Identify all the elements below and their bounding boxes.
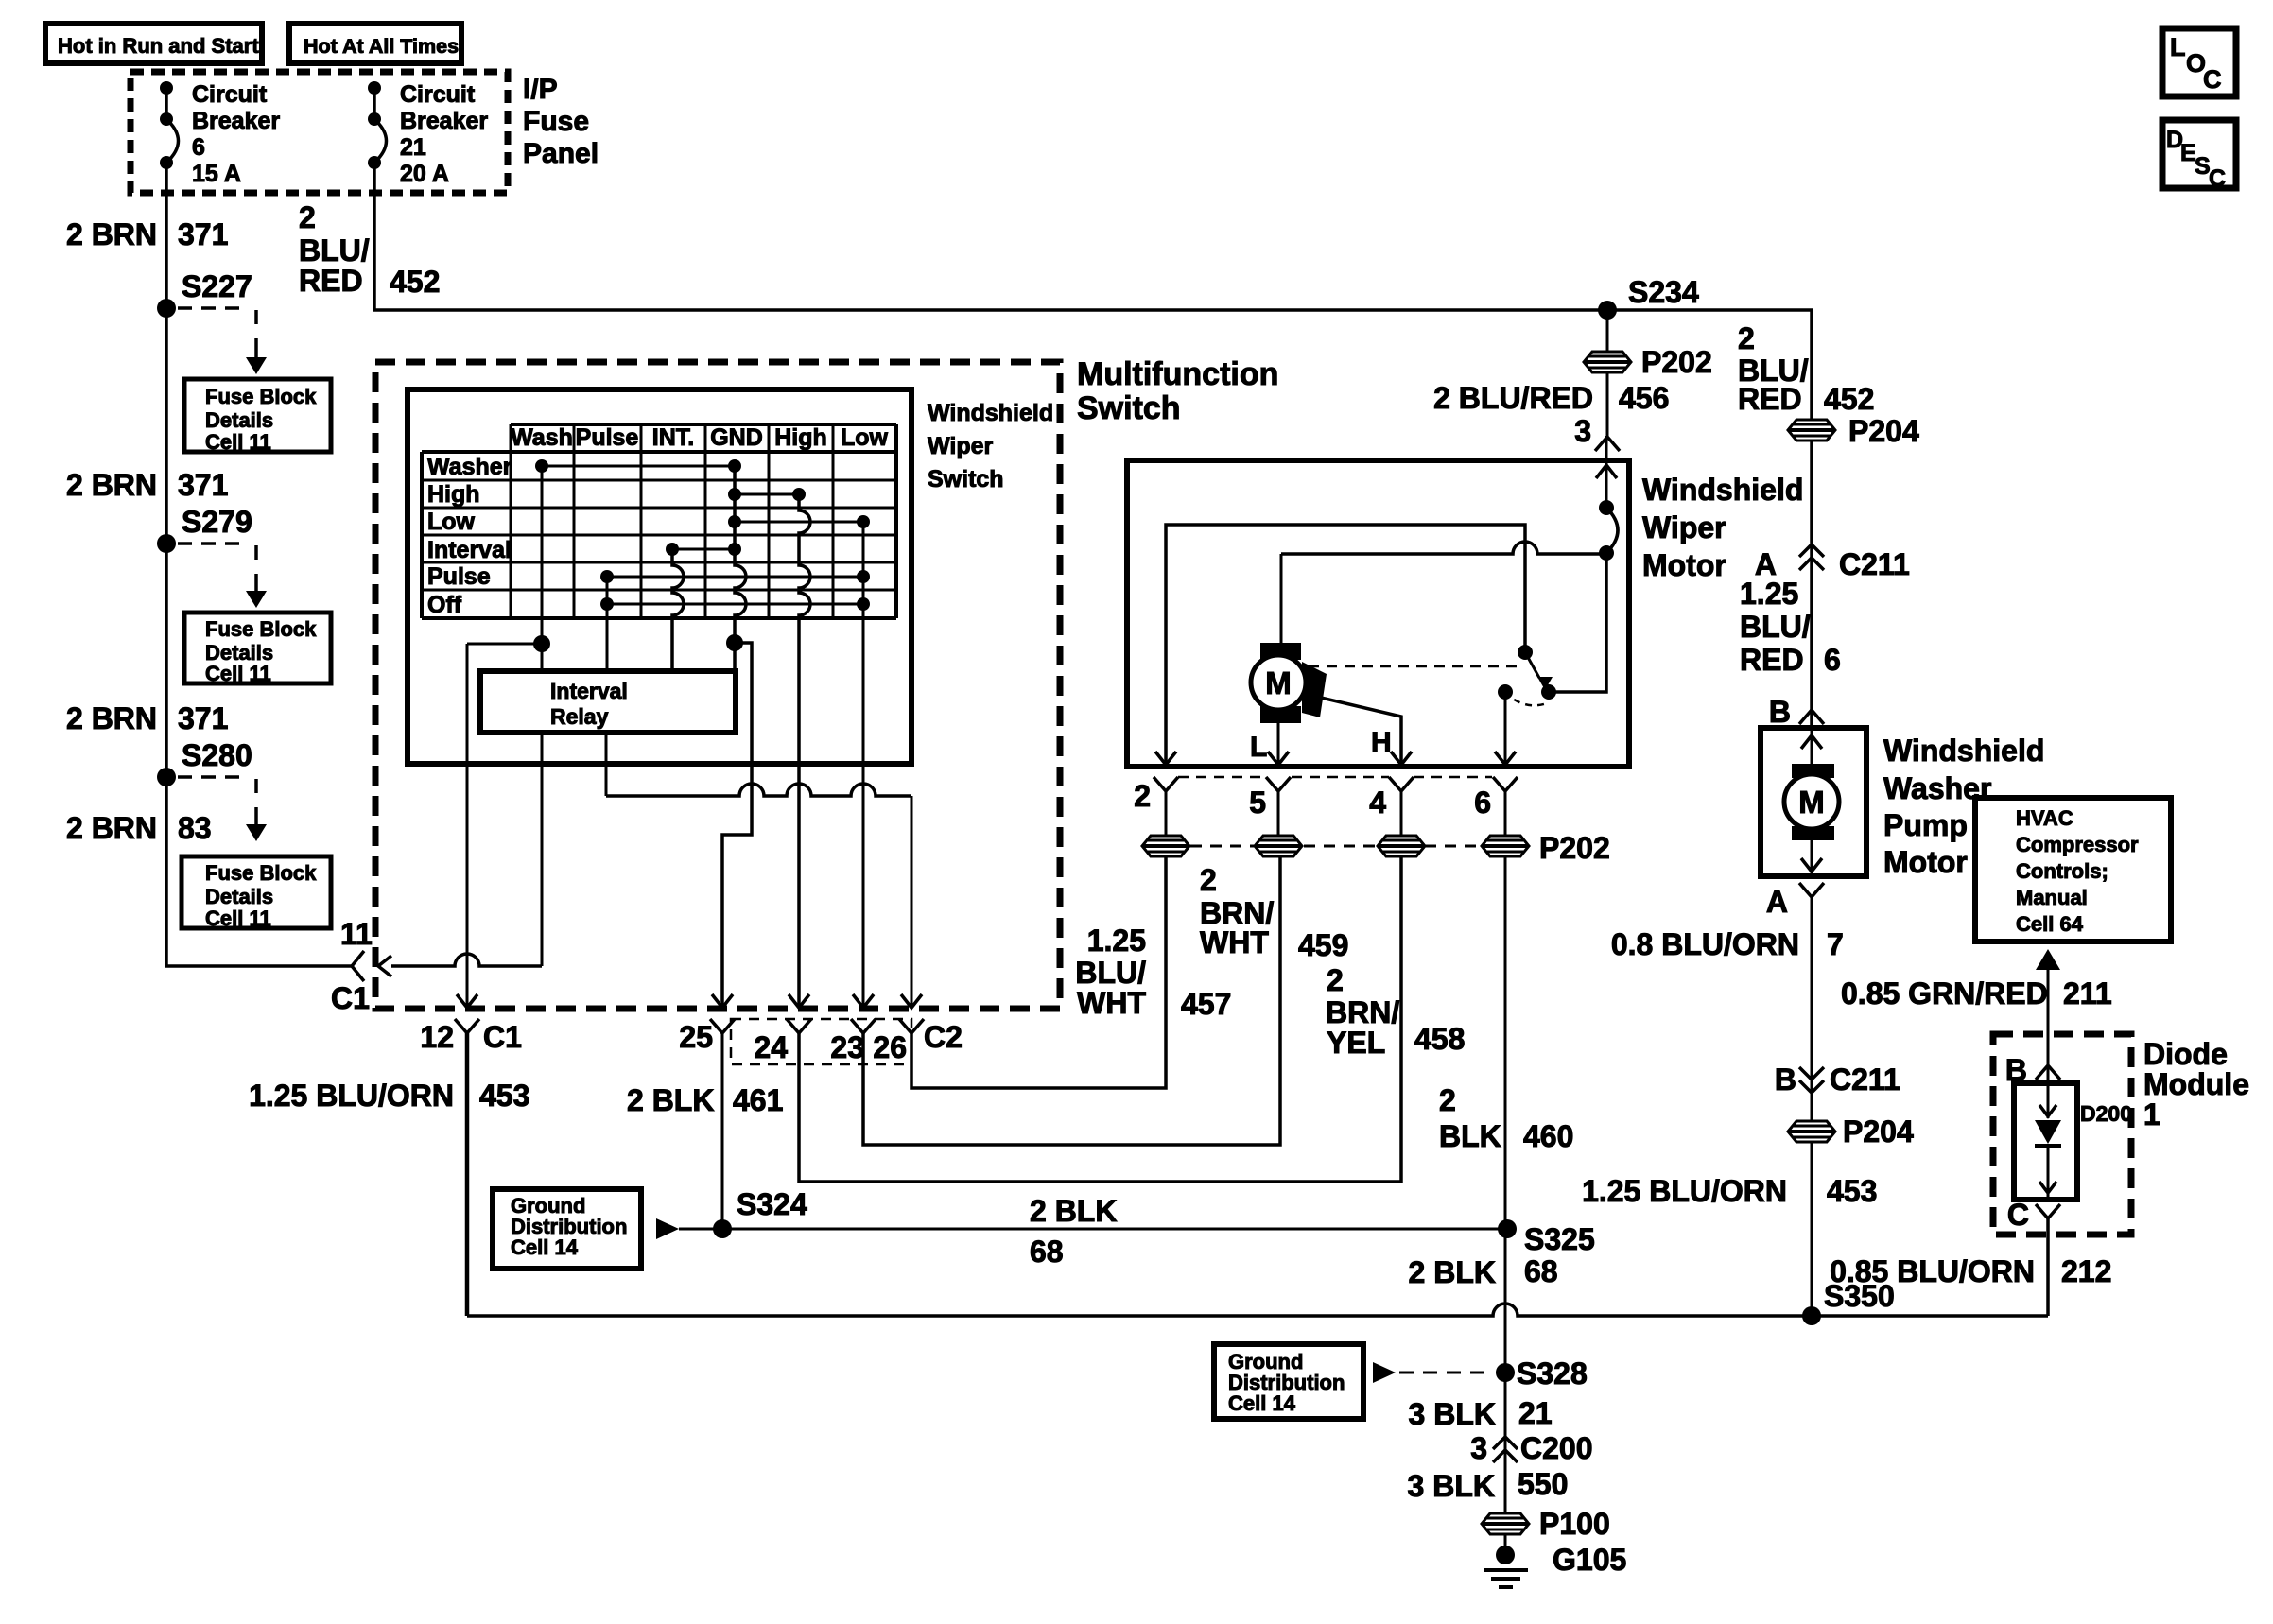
svg-text:Cell 11: Cell 11 — [205, 907, 271, 930]
C1 pin 11 connector (female) — [331, 917, 373, 1015]
diode symbol — [2035, 1083, 2061, 1200]
svg-text:Windshield: Windshield — [1883, 734, 2044, 768]
CB6 text — [192, 81, 280, 187]
P202 grommet on wire 456 — [1584, 345, 1712, 379]
wire 211: diode B up to HVAC box — [2036, 949, 2060, 1083]
svg-text:Details: Details — [205, 408, 273, 432]
svg-text:2 BRN: 2 BRN — [66, 468, 157, 502]
label 2 BLK 68 (middle) — [1030, 1194, 1117, 1269]
svg-text:M: M — [1265, 665, 1292, 700]
arrow from ground distribution box to S324 — [656, 1218, 679, 1239]
svg-text:3: 3 — [1470, 1431, 1487, 1465]
Ground Distribution box (right) — [1214, 1344, 1363, 1419]
label 2 BLK 461 — [627, 1083, 783, 1117]
svg-text:460: 460 — [1523, 1119, 1573, 1153]
svg-text:21: 21 — [400, 134, 426, 161]
P204 grommet on wire 452 — [1788, 414, 1919, 448]
svg-text:G105: G105 — [1553, 1543, 1626, 1577]
svg-text:C200: C200 — [1520, 1431, 1593, 1465]
contact trace: Washer row — [535, 459, 741, 473]
svg-text:Circuit: Circuit — [400, 81, 476, 108]
wire 461: C2-25 down to S324 — [721, 1033, 724, 1229]
svg-text:6: 6 — [1824, 643, 1841, 677]
arrow and dashed link to S328 — [1373, 1362, 1492, 1383]
svg-text:Pulse: Pulse — [427, 563, 491, 590]
svg-text:Circuit: Circuit — [192, 81, 268, 108]
svg-text:L: L — [1250, 732, 1267, 763]
svg-text:WHT: WHT — [1200, 925, 1269, 959]
svg-text:S280: S280 — [182, 738, 252, 772]
Diode Module label — [2143, 1037, 2249, 1132]
svg-text:Cell 64: Cell 64 — [2016, 912, 2084, 936]
wire 7: washer pump A down to S350 — [1811, 897, 1813, 1316]
Fuse Block Details box 1 — [184, 379, 331, 454]
svg-text:2 BLK: 2 BLK — [627, 1083, 714, 1117]
wire 212: diode C down to S350 — [2046, 1218, 2050, 1316]
wire 457: C2-26 to wiper motor pin 2 — [911, 857, 1166, 1088]
svg-text:RED: RED — [299, 264, 363, 298]
svg-text:C: C — [2007, 1198, 2029, 1232]
High column wire to pin 24 — [789, 494, 810, 1008]
svg-text:BLK: BLK — [1439, 1119, 1501, 1153]
mechanical link dashed line from rotor to park switch — [1309, 665, 1518, 668]
svg-text:Breaker: Breaker — [400, 108, 488, 134]
diode D200 box — [2014, 1083, 2077, 1200]
wire label 2 BRN 371 (first) — [66, 217, 228, 251]
svg-text:C: C — [2203, 65, 2222, 94]
diode pin C connector — [2007, 1198, 2060, 1232]
contact trace: Interval row — [666, 543, 741, 556]
svg-text:C2: C2 — [924, 1020, 963, 1054]
svg-text:Switch: Switch — [1077, 390, 1181, 426]
svg-text:Windshield: Windshield — [928, 400, 1053, 426]
svg-text:211: 211 — [2063, 976, 2112, 1011]
svg-text:83: 83 — [178, 811, 212, 845]
label 1.25 BLU/ORN 453 — [249, 1079, 529, 1113]
svg-text:1.25 BLU/ORN: 1.25 BLU/ORN — [249, 1079, 454, 1113]
svg-text:High: High — [427, 481, 480, 508]
svg-text:23: 23 — [830, 1030, 864, 1064]
wire 456: S234 down to motor pin 3 — [1606, 310, 1609, 436]
P100 grommet — [1482, 1507, 1610, 1541]
switch contact table grid — [422, 424, 896, 618]
power label box: Hot in Run and Start — [45, 24, 262, 63]
svg-text:2 BRN: 2 BRN — [66, 217, 157, 251]
svg-text:5: 5 — [1249, 786, 1266, 820]
L and H labels — [1250, 727, 1392, 763]
svg-text:Fuse Block: Fuse Block — [205, 617, 317, 641]
wire 453/212 bottom run: C1-12 corner to diode C with hop at ground wire — [467, 1304, 2048, 1316]
table header labels — [511, 424, 888, 451]
svg-text:461: 461 — [733, 1083, 783, 1117]
svg-text:2: 2 — [1439, 1083, 1456, 1117]
svg-text:Diode: Diode — [2143, 1037, 2228, 1071]
label 0.85 BLU/ORN 212 — [1830, 1254, 2111, 1288]
svg-text:P202: P202 — [1641, 345, 1712, 379]
svg-text:2 BLK: 2 BLK — [1030, 1194, 1117, 1228]
contact trace: Off row — [600, 597, 870, 611]
svg-text:457: 457 — [1181, 987, 1231, 1021]
svg-text:S328: S328 — [1517, 1356, 1588, 1391]
wire label 2 BLU/RED 452 (left) — [299, 200, 440, 299]
svg-text:Cell 14: Cell 14 — [1228, 1391, 1296, 1415]
svg-text:Wiper: Wiper — [1642, 510, 1726, 544]
svg-text:Fuse: Fuse — [523, 106, 589, 137]
Multifunction Switch label — [1077, 356, 1278, 426]
svg-text:20 A: 20 A — [400, 161, 449, 187]
I/P Fuse Panel dashed box — [130, 72, 508, 193]
P202 pass-through grommets row — [1142, 831, 1610, 865]
svg-text:6: 6 — [1474, 786, 1491, 820]
HVAC Compressor Controls box — [1975, 798, 2171, 942]
svg-text:Hot in Run and Start: Hot in Run and Start — [58, 34, 259, 58]
svg-text:Off: Off — [427, 592, 462, 618]
svg-text:Relay: Relay — [550, 704, 609, 729]
svg-text:2 BRN: 2 BRN — [66, 811, 157, 845]
svg-text:371: 371 — [178, 217, 228, 251]
label 3 BLK 21 — [1409, 1396, 1553, 1431]
C1 pin 12 connector — [420, 1019, 522, 1054]
C2 connector pins 25/24/23/26 — [679, 1019, 963, 1064]
svg-text:B: B — [1775, 1063, 1796, 1097]
svg-text:Washer: Washer — [427, 454, 512, 480]
wire label 2 BRN 371 (third) — [66, 701, 228, 735]
Wash column wire down to relay and branch to C1 pin 12 — [457, 466, 550, 1008]
svg-text:High: High — [774, 424, 827, 451]
svg-text:Wash: Wash — [511, 424, 573, 451]
svg-text:Controls;: Controls; — [2016, 859, 2108, 883]
svg-text:S350: S350 — [1824, 1279, 1895, 1313]
svg-text:Hot At All Times: Hot At All Times — [304, 35, 459, 58]
svg-text:Windshield: Windshield — [1642, 473, 1803, 507]
svg-text:BLU/: BLU/ — [1075, 956, 1146, 990]
wire 458(high): C2-24 to wiper motor pin 4 — [799, 857, 1401, 1182]
svg-text:21: 21 — [1518, 1396, 1553, 1430]
wire 460: motor pin 6 to S325 — [1504, 857, 1507, 1229]
svg-text:S325: S325 — [1524, 1222, 1595, 1256]
Fuse Block Details box 2 — [184, 613, 331, 685]
svg-text:371: 371 — [178, 701, 228, 735]
svg-text:Motor: Motor — [1883, 845, 1968, 879]
svg-text:Motor: Motor — [1642, 548, 1726, 582]
CB21 text — [400, 81, 488, 187]
svg-text:C: C — [2209, 165, 2226, 192]
svg-text:Cell 11: Cell 11 — [205, 430, 271, 454]
wire 459(low): C2-23 to wiper motor pin 5 — [863, 857, 1280, 1145]
splice S328 — [1496, 1356, 1588, 1391]
svg-text:L: L — [2170, 33, 2186, 61]
svg-text:15 A: 15 A — [192, 161, 241, 187]
svg-text:Module: Module — [2143, 1067, 2249, 1101]
splice S234 — [1598, 275, 1699, 320]
svg-text:4: 4 — [1369, 786, 1386, 820]
svg-text:Fuse Block: Fuse Block — [205, 385, 317, 408]
motor M symbol — [1251, 643, 1327, 723]
svg-text:INT.: INT. — [652, 424, 694, 451]
svg-text:M: M — [1798, 785, 1825, 820]
wire 453: C1-12 down to S350 line — [465, 1033, 470, 1316]
svg-text:Manual: Manual — [2016, 886, 2088, 909]
svg-text:A: A — [1766, 885, 1788, 919]
circuit breaker CB21 (20 A) — [368, 81, 387, 169]
svg-text:D200: D200 — [2080, 1101, 2132, 1126]
svg-text:2 BLU/RED: 2 BLU/RED — [1433, 381, 1593, 415]
Fuse Block Details box 3 — [182, 856, 331, 930]
label 0.8 BLU/ORN 7 — [1611, 927, 1844, 961]
park switch inner loop: pin 2 up and over to pivot — [1166, 525, 1525, 765]
contact trace: High row — [728, 488, 806, 501]
svg-text:HVAC: HVAC — [2016, 806, 2073, 830]
wire labels below motor — [1075, 924, 1231, 1021]
svg-text:25: 25 — [679, 1020, 713, 1054]
svg-text:B: B — [1769, 695, 1791, 729]
label 1.25 BLU/ORN 453 (right) — [1582, 1174, 1877, 1208]
svg-text:Pump: Pump — [1883, 808, 1968, 842]
park switch pivot, arm and throws — [1498, 645, 1556, 765]
svg-text:Details: Details — [205, 885, 273, 908]
svg-text:2: 2 — [1327, 963, 1344, 997]
P204 grommet (lower) — [1788, 1114, 1914, 1149]
svg-text:P100: P100 — [1539, 1507, 1610, 1541]
svg-text:BRN/: BRN/ — [1326, 995, 1399, 1029]
svg-text:Interval: Interval — [550, 679, 628, 703]
label 3 BLK 550 — [1408, 1467, 1569, 1503]
GND column wire to relay and branch to pin 25 — [712, 466, 752, 1008]
DESC reference box — [2162, 120, 2236, 192]
svg-text:11: 11 — [340, 917, 373, 951]
svg-text:2 BRN: 2 BRN — [66, 701, 157, 735]
svg-text:B: B — [2005, 1053, 2027, 1087]
svg-text:Multifunction: Multifunction — [1077, 356, 1278, 392]
Windshield Wiper Switch label — [928, 400, 1053, 492]
Windshield Wiper Motor box — [1127, 460, 1629, 767]
svg-text:0.85 GRN/RED: 0.85 GRN/RED — [1841, 976, 2048, 1011]
svg-text:P204: P204 — [1848, 414, 1919, 448]
svg-text:68: 68 — [1030, 1235, 1064, 1269]
svg-text:3: 3 — [1574, 414, 1591, 448]
motor connector pins 2/5/4/6 — [1134, 777, 1518, 836]
relay output wire to pin 26 (with hops) — [606, 733, 922, 1008]
Ground Distribution box (left) — [493, 1189, 641, 1269]
svg-text:RED: RED — [1740, 643, 1804, 677]
motor common wire from contact down to park switch throw — [1549, 553, 1606, 692]
contact trace: Low row — [728, 515, 870, 528]
svg-text:Panel: Panel — [523, 138, 599, 169]
svg-text:C1: C1 — [483, 1020, 522, 1054]
label 1.25 BLU/RED 6 — [1740, 577, 1841, 677]
svg-text:24: 24 — [754, 1030, 788, 1064]
svg-text:S227: S227 — [182, 269, 252, 303]
svg-text:2: 2 — [1738, 321, 1755, 355]
washer pump pin A connector — [1766, 883, 1824, 919]
S325 label — [1524, 1222, 1595, 1256]
Low column wire to pin 23 — [853, 522, 874, 1008]
diode pin B connector — [2005, 1053, 2060, 1087]
connector C200 pin 3 — [1470, 1431, 1592, 1465]
svg-text:7: 7 — [1827, 927, 1844, 961]
svg-text:2 BLK: 2 BLK — [1409, 1255, 1496, 1289]
svg-text:371: 371 — [178, 468, 228, 502]
svg-text:Cell 14: Cell 14 — [511, 1235, 579, 1259]
ground wire S325 to S328 to G105 — [1504, 1229, 1507, 1553]
contact trace: Pulse row — [600, 570, 870, 583]
circuit breaker CB6 (15 A) — [160, 81, 179, 169]
S227 dashed link to fuse block details — [178, 308, 267, 374]
svg-text:68: 68 — [1524, 1254, 1558, 1288]
LOC reference box — [2162, 28, 2236, 96]
label 0.85 GRN/RED 211 — [1841, 976, 2112, 1011]
arrows at motor box bottom edge — [1155, 752, 1516, 765]
wire 371: CB6 down the left side to C1 pin 11 — [166, 163, 352, 966]
svg-text:Wiper: Wiper — [928, 433, 993, 459]
relay feed wire to C1 pin 11 (with hop) — [378, 733, 542, 976]
table row labels — [427, 454, 512, 618]
svg-text:Low: Low — [427, 509, 476, 535]
svg-text:YEL: YEL — [1327, 1026, 1385, 1060]
svg-text:456: 456 — [1619, 381, 1669, 415]
svg-text:S324: S324 — [737, 1187, 807, 1221]
svg-text:Compressor: Compressor — [2016, 833, 2139, 856]
Windshield Wiper Switch solid box — [408, 389, 911, 764]
splice S324 and ground wire 68 to S325 — [679, 1187, 1517, 1238]
wire from motor top to contact (hop over park wire) — [1281, 542, 1606, 643]
connector C211 pin A — [1755, 544, 1910, 581]
svg-text:C211: C211 — [1830, 1063, 1900, 1097]
svg-text:C211: C211 — [1839, 547, 1910, 581]
Windshield Washer Pump Motor box — [1761, 728, 1866, 876]
washer pump pin B connector — [1769, 695, 1824, 729]
svg-text:459: 459 — [1298, 928, 1348, 962]
label 2 BLK 68 (lower) — [1409, 1254, 1558, 1289]
svg-text:1.25: 1.25 — [1087, 924, 1146, 958]
svg-text:452: 452 — [390, 265, 440, 299]
svg-text:S279: S279 — [182, 505, 252, 539]
splice S279 — [157, 505, 252, 553]
svg-text:2: 2 — [1134, 779, 1151, 813]
svg-text:WHT: WHT — [1077, 986, 1146, 1020]
wire label 2 BRN 371 (second) — [66, 468, 228, 502]
svg-text:0.8 BLU/ORN: 0.8 BLU/ORN — [1611, 927, 1799, 961]
svg-text:1.25: 1.25 — [1740, 577, 1798, 611]
svg-text:453: 453 — [479, 1079, 529, 1113]
svg-text:1: 1 — [2143, 1097, 2160, 1132]
splice S280 — [157, 738, 252, 786]
wire 452: CB21 to S234 and down right side — [374, 163, 1812, 728]
Interval Relay box — [480, 671, 736, 733]
svg-text:12: 12 — [420, 1020, 454, 1054]
Diode Module dashed box — [1993, 1034, 2131, 1235]
connector C211 pin B — [1775, 1063, 1900, 1097]
power label box: Hot At All Times — [289, 24, 461, 63]
svg-text:458: 458 — [1414, 1022, 1465, 1056]
svg-text:Fuse Block: Fuse Block — [205, 861, 317, 885]
svg-text:S234: S234 — [1628, 275, 1699, 309]
svg-text:GND: GND — [710, 424, 763, 451]
svg-text:C1: C1 — [331, 981, 370, 1015]
Windshield Wiper Motor label — [1642, 473, 1803, 582]
svg-text:P204: P204 — [1843, 1114, 1914, 1149]
svg-text:Interval: Interval — [427, 537, 512, 563]
label 2 BLU/RED 456 — [1433, 381, 1669, 415]
Windshield Washer Pump Motor label — [1883, 734, 2044, 879]
INT column wire to relay — [672, 549, 684, 671]
svg-text:BLU/: BLU/ — [1740, 610, 1811, 644]
svg-text:I/P: I/P — [523, 74, 558, 105]
svg-text:212: 212 — [2061, 1254, 2111, 1288]
svg-text:452: 452 — [1824, 382, 1874, 416]
svg-text:26: 26 — [873, 1030, 907, 1064]
label 2 BLU/RED 452 (right) — [1738, 321, 1874, 416]
svg-text:P202: P202 — [1539, 831, 1610, 865]
motor pin 3 connector — [1574, 414, 1620, 451]
svg-text:2: 2 — [299, 200, 316, 234]
svg-text:RED: RED — [1738, 382, 1802, 416]
svg-text:2: 2 — [1200, 863, 1217, 897]
svg-text:550: 550 — [1518, 1467, 1568, 1501]
wire label 2 BRN 83 — [66, 811, 212, 845]
svg-text:H: H — [1371, 727, 1392, 758]
svg-text:Pulse: Pulse — [576, 424, 639, 451]
svg-text:453: 453 — [1827, 1174, 1877, 1208]
svg-text:6: 6 — [192, 134, 205, 161]
Pulse column wire to relay — [606, 577, 609, 671]
svg-text:3 BLK: 3 BLK — [1409, 1397, 1496, 1431]
ground G105 — [1484, 1543, 1626, 1587]
motor low brush wire to pin 5 — [1277, 722, 1280, 765]
svg-text:3 BLK: 3 BLK — [1408, 1469, 1495, 1503]
Multifunction Switch dashed box — [375, 362, 1060, 1009]
pin 3 feed with park-switch breaker contact — [1596, 436, 1618, 561]
S279 dashed link to fuse block details — [178, 544, 267, 608]
motor high brush wire to pin 4 — [1317, 697, 1401, 765]
svg-text:Cell 11: Cell 11 — [205, 662, 271, 685]
svg-text:Low: Low — [841, 424, 889, 451]
svg-text:Breaker: Breaker — [192, 108, 280, 134]
svg-text:BLU/: BLU/ — [299, 233, 370, 268]
svg-text:1.25 BLU/ORN: 1.25 BLU/ORN — [1582, 1174, 1787, 1208]
svg-text:Switch: Switch — [928, 466, 1004, 492]
splice S227 — [157, 269, 252, 318]
splice S350 — [1802, 1279, 1895, 1325]
S280 dashed link to fuse block details — [178, 777, 267, 841]
